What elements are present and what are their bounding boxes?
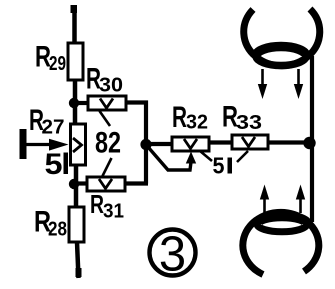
arrow down (right, under top coil) — [294, 69, 303, 99]
label R27 — [29, 104, 65, 139]
svg-text:31: 31 — [103, 201, 124, 223]
svg-text:5: 5 — [213, 153, 225, 179]
leader line 82 to R31 — [103, 158, 112, 176]
wire: main left vertical bus — [71, 5, 82, 278]
value 51 (R32/R33) — [213, 153, 233, 179]
svg-text:28: 28 — [48, 219, 67, 241]
label R29 — [35, 41, 66, 76]
svg-text:5: 5 — [45, 148, 63, 181]
resistor R28 — [69, 207, 84, 242]
wire: right vertical bus between coils — [310, 56, 314, 222]
label R32 — [172, 101, 208, 134]
svg-text:82: 82 — [95, 127, 121, 160]
resistor R33 — [232, 135, 268, 149]
label R31 — [90, 189, 124, 223]
resistor R27 (variable, with arrow) — [71, 124, 86, 165]
wire: R31 right to vertical riser — [125, 181, 148, 185]
wire: R30 right to corner and down to node C — [126, 103, 146, 184]
wire: R32 to R33 — [209, 140, 232, 144]
wire: node A to R30 — [74, 101, 88, 105]
node C junction dot — [140, 139, 151, 150]
power mark V inside R31 — [99, 179, 112, 189]
coil L2 (bottom deflection coil): outer ring open at bottom — [243, 212, 319, 274]
power mark V inside R33 — [242, 137, 255, 147]
wire: node B to R31 — [74, 181, 87, 185]
terminal bar at arrow tail — [20, 129, 27, 159]
coil L1 winding ellipse — [256, 47, 306, 66]
wiper of R32 tied back to node C — [148, 147, 196, 170]
node D junction dot — [303, 137, 315, 149]
arrow up (left, above bottom coil) — [260, 185, 269, 215]
svg-text:29: 29 — [49, 53, 66, 75]
node B junction dot (R31 tap) — [69, 179, 79, 189]
leader line 51 to R33 — [237, 151, 248, 162]
arrow down (left, under top coil) — [258, 69, 267, 99]
resistor R31 — [87, 177, 125, 191]
svg-text:30: 30 — [99, 75, 123, 97]
power mark chevron inside R27 — [73, 138, 82, 152]
wiper arrow into R27 — [26, 139, 69, 151]
wire: node C to R32 — [146, 142, 172, 146]
resistor R30 — [88, 96, 126, 110]
label R28 — [34, 206, 67, 241]
resistor R32 (variable) — [172, 137, 209, 151]
node A junction dot (R30 tap) — [69, 98, 79, 108]
label R33 — [222, 101, 262, 135]
value 51 (R27) — [45, 148, 69, 181]
coil L2 winding ellipse — [257, 216, 307, 232]
power mark V inside R32 — [184, 139, 197, 149]
leader line 82 to R30 — [100, 111, 111, 126]
svg-text:27: 27 — [42, 117, 65, 139]
svg-text:33: 33 — [236, 112, 262, 134]
label R30 — [86, 63, 123, 97]
leader line 51 to R32 — [200, 151, 212, 161]
svg-text:32: 32 — [186, 112, 208, 134]
svg-text:R: R — [172, 101, 187, 134]
coil L1 (top deflection coil): outer ring open at top — [244, 9, 320, 66]
resistor R29 — [68, 43, 83, 80]
figure number 3 (circled) — [150, 228, 196, 282]
value 82 (R30/R31) — [95, 127, 121, 160]
arrow up (right, above bottom coil) — [296, 185, 305, 214]
wire: R33 to right vertical bus — [268, 140, 312, 144]
power mark V inside R30 — [100, 99, 113, 109]
svg-text:3: 3 — [159, 228, 186, 282]
